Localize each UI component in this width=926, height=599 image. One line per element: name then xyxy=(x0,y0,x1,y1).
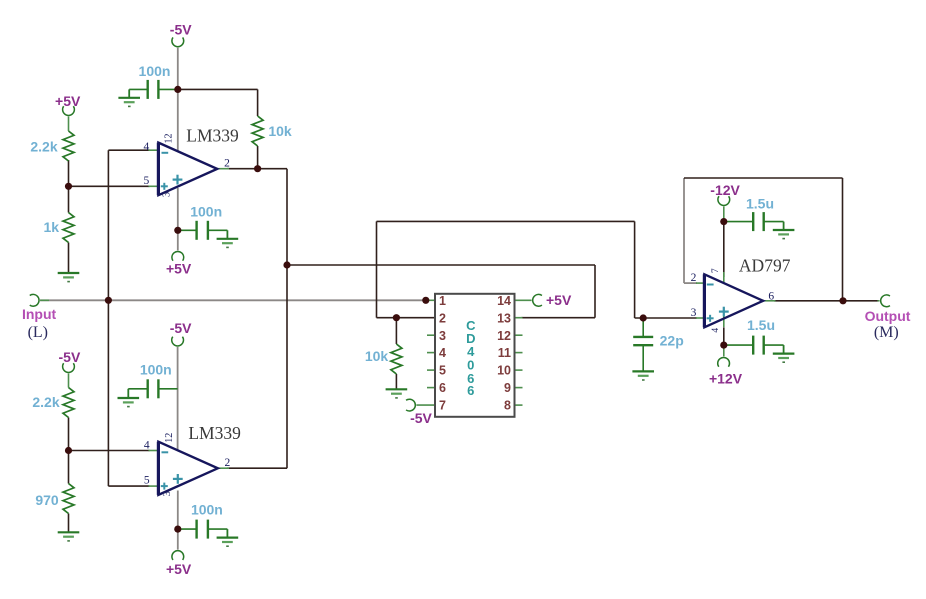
svg-text:12: 12 xyxy=(497,329,511,343)
wire into U3 pin13 xyxy=(522,317,596,319)
capacitor C7 22p xyxy=(633,336,653,338)
svg-text:3: 3 xyxy=(162,491,173,496)
wire 22p top xyxy=(642,318,644,337)
svg-text:+5V: +5V xyxy=(546,292,572,308)
terminal -5V U1 xyxy=(172,37,184,46)
svg-text:(M): (M) xyxy=(874,324,899,341)
svg-text:7: 7 xyxy=(439,399,446,413)
svg-text:+5V: +5V xyxy=(166,261,192,277)
op-amp U2 LM339 triangle xyxy=(158,442,217,495)
svg-text:13: 13 xyxy=(497,311,511,325)
U3 right pin stubs xyxy=(515,334,523,336)
resistor R1 2.2k xyxy=(63,131,74,161)
terminal -5V U2 xyxy=(172,337,184,346)
svg-text:2: 2 xyxy=(225,457,231,469)
svg-text:2: 2 xyxy=(439,311,446,325)
capacitor C4 100n xyxy=(178,528,197,530)
svg-text:10k: 10k xyxy=(365,348,389,364)
svg-text:5: 5 xyxy=(439,364,446,378)
svg-text:-12V: -12V xyxy=(710,182,740,198)
wire divider1 node to U1 pin5 xyxy=(69,185,150,187)
capacitor C6 1.5u xyxy=(724,344,753,346)
input terminal stub xyxy=(40,299,49,301)
svg-text:10: 10 xyxy=(497,364,511,378)
wire comparator output vertical bus xyxy=(286,169,288,469)
wire -5V rail to R3 xyxy=(178,88,258,90)
terminal output xyxy=(881,295,890,307)
junction divider1 xyxy=(65,183,72,190)
svg-text:100n: 100n xyxy=(139,63,171,79)
U3 pin1 stub xyxy=(426,299,435,301)
junction +12V/C6 xyxy=(720,342,727,349)
svg-text:9: 9 xyxy=(504,381,511,395)
capacitor C2 100n xyxy=(178,229,197,231)
ground C2 xyxy=(226,230,228,239)
wire -5V rail U2 top xyxy=(177,347,179,450)
svg-text:LM339: LM339 xyxy=(188,423,241,443)
wire -5V rail U1 top xyxy=(177,48,179,151)
wire U3 pin2 net top horizontal xyxy=(377,220,635,222)
wire divider2 node to U2 pin4 xyxy=(69,450,150,452)
junction output node xyxy=(839,297,846,304)
wire AD797 output xyxy=(774,300,878,302)
junction R3/U1 out xyxy=(254,165,261,172)
svg-text:5: 5 xyxy=(144,474,150,486)
svg-text:+12V: +12V xyxy=(709,370,743,386)
svg-text:12: 12 xyxy=(164,433,175,443)
svg-text:6: 6 xyxy=(439,381,446,395)
wire R3 to U1 output xyxy=(257,146,259,169)
terminal +12V xyxy=(718,357,730,366)
svg-text:14: 14 xyxy=(497,294,511,308)
terminal -5V U3 pin7 xyxy=(406,399,415,411)
ground divider2 xyxy=(58,531,80,533)
U1 pin stubs xyxy=(149,149,159,151)
resistor R4 2.2k xyxy=(63,388,74,418)
svg-text:5: 5 xyxy=(144,175,150,187)
svg-text:6: 6 xyxy=(467,383,474,398)
wire AD797 top rail xyxy=(723,222,725,277)
U3 pin7 stub xyxy=(416,404,435,406)
capacitor C1 100n xyxy=(158,88,177,90)
terminal input xyxy=(30,294,39,306)
wire input vertical bus to comparators xyxy=(107,150,109,486)
junction C4/+5V xyxy=(174,526,181,533)
svg-text:8: 8 xyxy=(504,399,511,413)
terminal +5V divider1 xyxy=(63,106,75,115)
svg-text:-5V: -5V xyxy=(170,320,192,336)
ground C1 xyxy=(128,89,130,97)
junction output bus xyxy=(283,261,290,268)
wire 22p bottom xyxy=(642,345,644,371)
wire U1 output xyxy=(227,168,287,170)
U2 input polarity marks xyxy=(162,451,169,453)
svg-text:100n: 100n xyxy=(140,361,172,377)
U3 left pin stubs xyxy=(427,334,435,336)
svg-text:Output: Output xyxy=(865,308,911,324)
junction C2/+5V xyxy=(174,227,181,234)
wire U1 bottom rail to +5V xyxy=(177,188,179,230)
terminal -5V divider2 xyxy=(63,363,75,372)
terminal +5V U2 xyxy=(172,551,184,560)
svg-text:+5V: +5V xyxy=(55,93,81,109)
wire U2 output xyxy=(227,467,287,469)
U4 pin stubs xyxy=(696,282,704,284)
svg-text:11: 11 xyxy=(498,346,511,360)
svg-text:4: 4 xyxy=(144,141,150,153)
wire divider1 segments xyxy=(68,117,70,132)
U2 pin stubs xyxy=(149,450,159,452)
terminal -12V xyxy=(718,196,730,205)
svg-text:-5V: -5V xyxy=(410,410,432,426)
junction 22p node xyxy=(640,314,647,321)
wire input horizontal run xyxy=(40,299,426,301)
U3 pin13 stub xyxy=(515,317,523,319)
wire R6 top xyxy=(395,318,397,344)
svg-text:+5V: +5V xyxy=(166,561,192,577)
wire to U3 pin13 vertical xyxy=(594,265,596,318)
IC U3 CD4066 body xyxy=(435,294,515,417)
svg-text:(L): (L) xyxy=(28,324,48,341)
op-amp U4 AD797 triangle xyxy=(704,274,763,327)
wire output bus to U3 pin13 horizontal xyxy=(287,264,595,266)
svg-text:3: 3 xyxy=(162,192,173,197)
capacitor C5 1.5u xyxy=(724,221,753,223)
svg-text:-5V: -5V xyxy=(170,21,192,37)
resistor R2 1k xyxy=(63,213,74,243)
svg-text:970: 970 xyxy=(35,492,59,508)
svg-text:2: 2 xyxy=(691,272,697,284)
junction U3 pin1 xyxy=(422,297,429,304)
op-amp U1 LM339 triangle xyxy=(158,143,217,196)
svg-text:2: 2 xyxy=(224,158,230,170)
resistor R3 10k xyxy=(252,116,263,146)
ground C4 xyxy=(226,529,228,538)
svg-text:2.2k: 2.2k xyxy=(32,394,59,410)
svg-text:Input: Input xyxy=(22,306,57,322)
junction divider2 xyxy=(65,447,72,454)
ground R6 xyxy=(386,388,408,390)
U4 -12V terminal stub xyxy=(723,207,725,222)
wire U3 pin2 into chip xyxy=(377,317,436,319)
junction -12V/C5 xyxy=(720,218,727,225)
wire U1 pin4 from input bus xyxy=(108,149,149,151)
svg-text:100n: 100n xyxy=(190,203,222,219)
svg-text:4: 4 xyxy=(711,328,721,333)
wire feedback right vertical xyxy=(842,178,844,301)
wire AD797 input node to pin3 xyxy=(635,317,697,319)
ground C6 xyxy=(783,345,785,354)
wire U2 bottom rail to +5V xyxy=(177,491,179,530)
wire feedback left vertical xyxy=(683,178,685,283)
wire R6 bottom to ground xyxy=(395,374,397,389)
svg-text:12: 12 xyxy=(164,134,175,144)
svg-text:1.5u: 1.5u xyxy=(747,317,775,333)
U4 input polarity marks xyxy=(707,284,714,286)
wire divider2 segments xyxy=(68,374,70,388)
svg-text:3: 3 xyxy=(439,329,446,343)
wire U3 pin2 vertical xyxy=(376,221,378,317)
wire down to AD797 input node xyxy=(634,221,636,318)
junction R6/U3 pin2 xyxy=(393,314,400,321)
junction input node xyxy=(105,297,112,304)
junction -5V/C1 xyxy=(174,86,181,93)
U3 pin14 stub xyxy=(515,299,532,301)
svg-text:22p: 22p xyxy=(660,333,684,349)
svg-text:4: 4 xyxy=(144,439,150,451)
wire AD797 bottom rail xyxy=(723,327,725,345)
svg-text:2.2k: 2.2k xyxy=(30,139,57,155)
svg-text:AD797: AD797 xyxy=(739,255,791,275)
svg-text:7: 7 xyxy=(711,268,721,273)
resistor R5 970 xyxy=(63,484,74,514)
U4 +12V terminal stub xyxy=(723,345,725,356)
svg-text:1: 1 xyxy=(439,294,446,308)
svg-text:LM339: LM339 xyxy=(186,125,239,145)
ground divider1 xyxy=(58,272,80,274)
capacitor C3 100n xyxy=(158,388,177,390)
terminal +5V U3 pin14 xyxy=(533,294,542,306)
svg-text:1k: 1k xyxy=(44,219,60,235)
wire feedback pin2 horizontal xyxy=(684,282,697,284)
svg-text:100n: 100n xyxy=(191,501,223,517)
svg-text:3: 3 xyxy=(691,307,697,319)
U1 input polarity marks xyxy=(162,152,169,154)
ground C3 xyxy=(127,389,129,398)
ground C5 xyxy=(783,222,785,230)
wire U2 pin5 from input bus xyxy=(108,485,149,487)
svg-text:-5V: -5V xyxy=(59,349,81,365)
svg-text:1.5u: 1.5u xyxy=(746,195,774,211)
resistor R6 10k xyxy=(391,344,402,374)
svg-text:10k: 10k xyxy=(268,123,292,139)
ground C7 xyxy=(632,370,654,372)
output terminal stub xyxy=(878,300,880,302)
svg-text:6: 6 xyxy=(768,290,774,302)
wire feedback top xyxy=(684,177,843,179)
svg-text:4: 4 xyxy=(439,346,446,360)
terminal +5V U1 xyxy=(172,251,184,260)
